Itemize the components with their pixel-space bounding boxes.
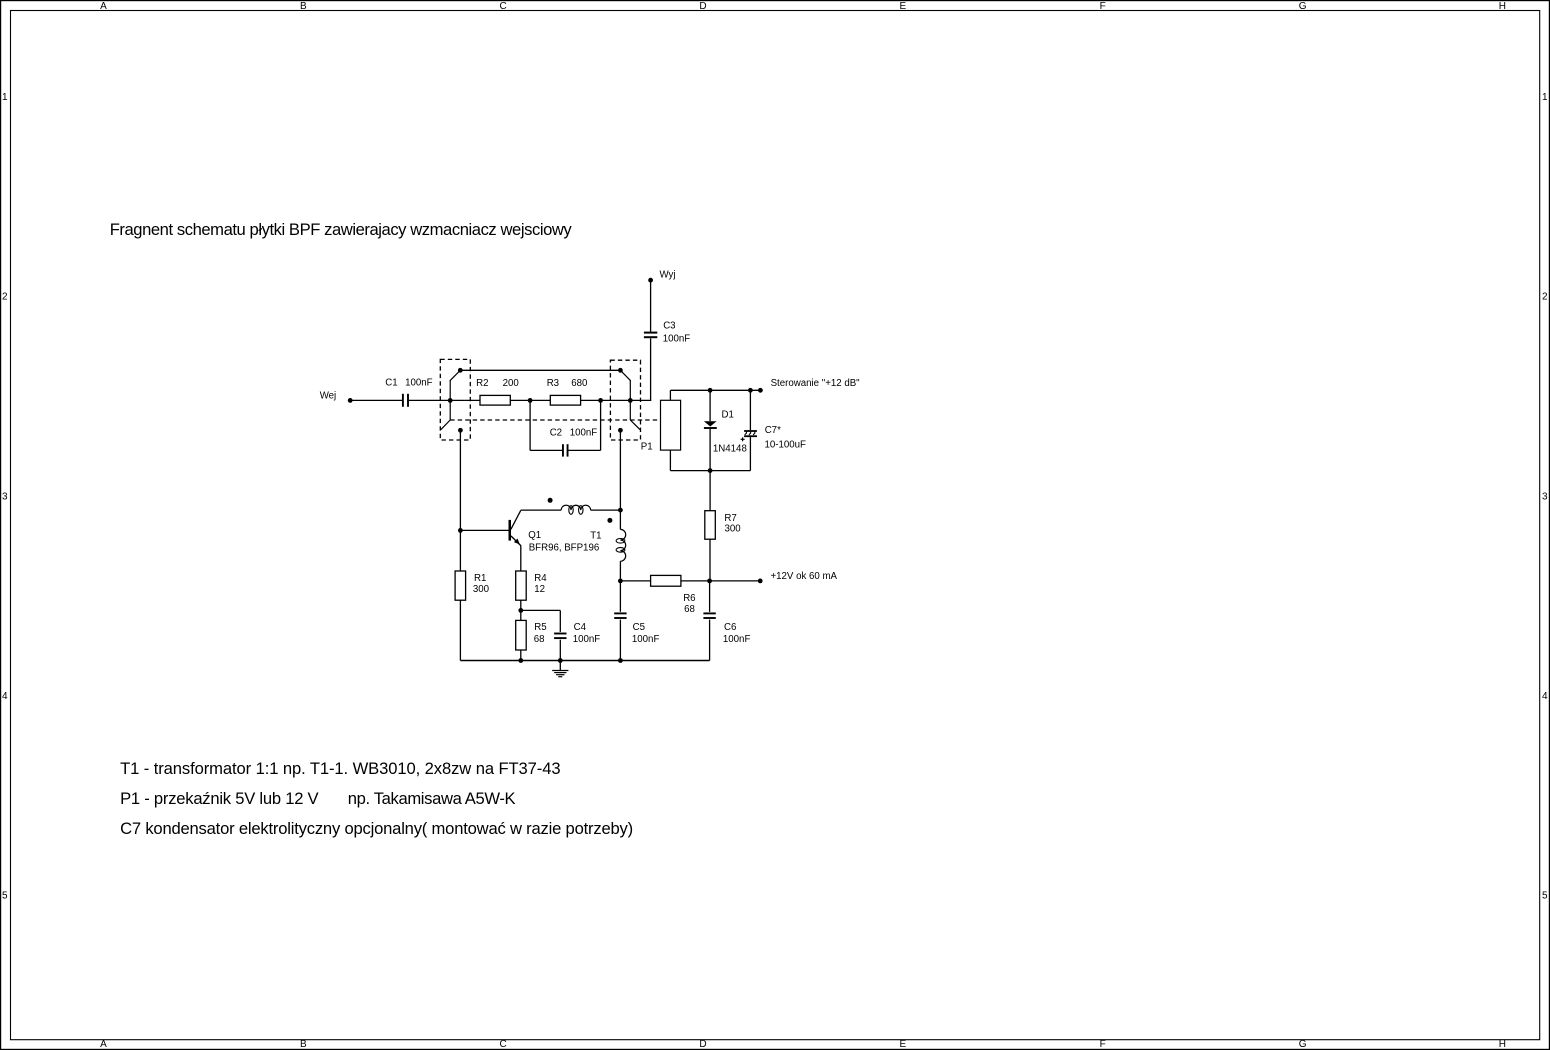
svg-text:4: 4	[1542, 691, 1548, 702]
svg-text:200: 200	[503, 378, 520, 389]
svg-text:Q1: Q1	[528, 530, 541, 541]
svg-text:C7*: C7*	[765, 425, 781, 436]
svg-text:100nF: 100nF	[723, 634, 751, 645]
svg-text:H: H	[1499, 1039, 1506, 1050]
svg-text:5: 5	[2, 891, 8, 902]
svg-text:10-100uF: 10-100uF	[765, 440, 807, 451]
svg-text:C3: C3	[663, 321, 675, 332]
svg-text:C2: C2	[550, 427, 562, 438]
svg-text:A: A	[100, 1039, 107, 1050]
svg-text:A: A	[100, 1, 107, 12]
svg-text:P1 - przekaźnik 5V lub 12 V: P1 - przekaźnik 5V lub 12 V	[120, 789, 318, 808]
svg-text:100nF: 100nF	[405, 378, 433, 389]
svg-text:G: G	[1299, 1039, 1307, 1050]
svg-text:G: G	[1299, 1, 1307, 12]
svg-text:Wej: Wej	[320, 390, 337, 401]
svg-text:D: D	[699, 1, 706, 12]
svg-text:5: 5	[1542, 891, 1548, 902]
svg-text:R1: R1	[474, 573, 486, 584]
svg-text:100nF: 100nF	[573, 634, 601, 645]
svg-text:E: E	[899, 1, 906, 12]
svg-text:3: 3	[2, 491, 8, 502]
svg-text:1: 1	[2, 92, 8, 103]
svg-text:E: E	[899, 1039, 906, 1050]
svg-text:4: 4	[2, 691, 8, 702]
svg-text:T1 - transformator 1:1 np. T1-: T1 - transformator 1:1 np. T1-1. WB3010,…	[120, 759, 560, 778]
svg-text:C5: C5	[633, 622, 645, 633]
svg-text:68: 68	[534, 634, 545, 645]
svg-text:300: 300	[473, 584, 490, 595]
svg-text:D1: D1	[722, 410, 734, 421]
svg-text:C6: C6	[724, 622, 736, 633]
svg-text:C: C	[499, 1039, 506, 1050]
svg-text:BFR96, BFP196: BFR96, BFP196	[529, 543, 600, 554]
svg-text:B: B	[300, 1, 307, 12]
svg-text:R2: R2	[476, 378, 488, 389]
svg-text:2: 2	[2, 292, 8, 303]
svg-text:68: 68	[684, 604, 695, 615]
svg-text:R6: R6	[683, 593, 695, 604]
svg-text:P1: P1	[641, 442, 653, 453]
svg-text:12: 12	[534, 584, 545, 595]
svg-text:100nF: 100nF	[663, 334, 691, 345]
svg-text:T1: T1	[590, 531, 601, 542]
svg-text:Fragnent schematu płytki BPF z: Fragnent schematu płytki BPF zawierajacy…	[110, 220, 573, 239]
svg-text:680: 680	[571, 378, 588, 389]
svg-text:R7: R7	[724, 513, 736, 524]
svg-text:C: C	[499, 1, 506, 12]
svg-text:B: B	[300, 1039, 307, 1050]
svg-text:C7 kondensator elektrolityczny: C7 kondensator elektrolityczny opcjonaln…	[120, 819, 633, 838]
svg-text:2: 2	[1542, 292, 1548, 303]
svg-text:H: H	[1499, 1, 1506, 12]
svg-text:1: 1	[1542, 92, 1548, 103]
svg-text:D: D	[699, 1039, 706, 1050]
svg-text:F: F	[1100, 1039, 1106, 1050]
svg-text:np. Takamisawa A5W-K: np. Takamisawa A5W-K	[348, 789, 516, 808]
svg-text:Sterowanie "+12 dB": Sterowanie "+12 dB"	[771, 378, 861, 389]
svg-text:300: 300	[725, 524, 742, 535]
svg-text:Wyj: Wyj	[660, 270, 676, 281]
svg-text:1N4148: 1N4148	[713, 443, 747, 454]
svg-text:R3: R3	[547, 378, 559, 389]
svg-text:+12V ok 60 mA: +12V ok 60 mA	[771, 571, 838, 582]
svg-text:R5: R5	[534, 622, 546, 633]
svg-text:100nF: 100nF	[570, 427, 598, 438]
svg-text:100nF: 100nF	[632, 634, 660, 645]
svg-text:R4: R4	[534, 573, 547, 584]
svg-text:3: 3	[1542, 491, 1548, 502]
svg-text:C4: C4	[574, 622, 587, 633]
svg-text:F: F	[1100, 1, 1106, 12]
svg-text:C1: C1	[385, 378, 397, 389]
